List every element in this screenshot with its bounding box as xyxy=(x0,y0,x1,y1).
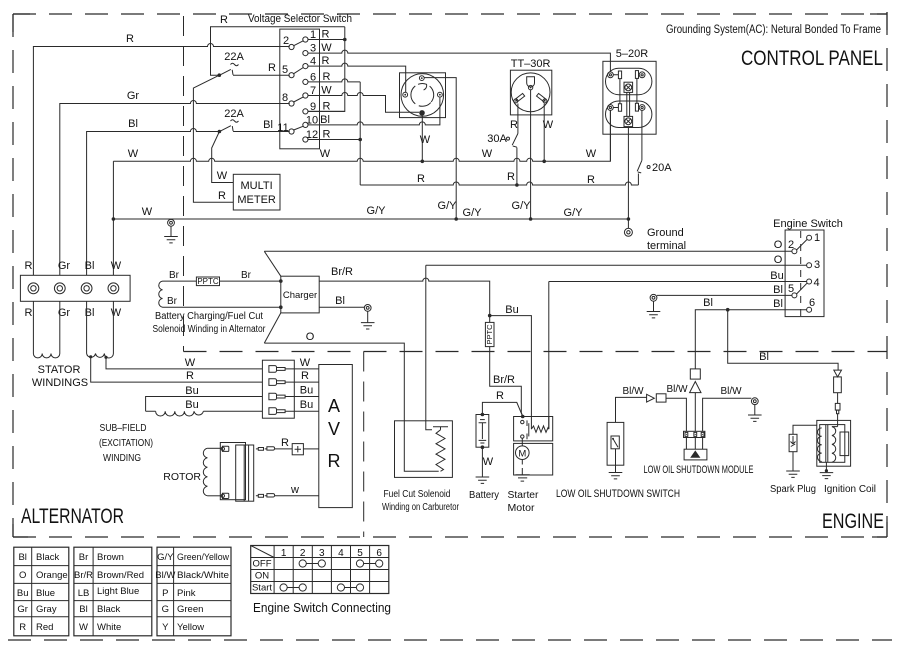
svg-text:Light Blue: Light Blue xyxy=(97,586,139,597)
wire Bl pin6 (corner x695.3 down to module, dot at 727.7) xyxy=(695,310,806,369)
svg-text:Bl: Bl xyxy=(128,118,138,130)
svg-text:Br: Br xyxy=(241,270,252,281)
svg-text:3: 3 xyxy=(814,259,820,271)
svg-text:Gr: Gr xyxy=(17,604,28,615)
relay contact bars xyxy=(526,420,528,439)
5-20R bottom neutral screw circle xyxy=(608,105,614,111)
STATOR xyxy=(20,260,262,464)
svg-text:Bl/W: Bl/W xyxy=(720,386,742,397)
svg-text:G/Y: G/Y xyxy=(564,207,584,219)
relay coil right end up to Bu pin4 line xyxy=(548,417,550,430)
svg-text:R: R xyxy=(126,33,134,45)
border top dashed xyxy=(13,13,887,15)
connector box xyxy=(656,394,666,402)
5-20R top outlet stadium xyxy=(606,68,652,95)
svg-text:R: R xyxy=(301,370,309,382)
brush assembly outer box xyxy=(220,443,245,500)
svg-text:W: W xyxy=(321,42,332,54)
ignition feed resistor box xyxy=(834,377,842,393)
svg-text:METER: METER xyxy=(237,194,276,206)
fuse 22A upper thermal squiggle xyxy=(231,63,239,65)
junction dot W/L14-30R neutral xyxy=(421,160,425,164)
frame ground terminal circle xyxy=(168,219,175,226)
svg-text:Gr: Gr xyxy=(127,90,140,102)
IGNITION xyxy=(770,370,876,495)
pin 1 xyxy=(303,37,308,42)
spark plug cap connector xyxy=(835,403,840,410)
svg-text:Y: Y xyxy=(162,622,169,633)
5-20R bottom outlet stadium xyxy=(606,101,652,128)
svg-text:Br: Br xyxy=(79,552,89,563)
svg-text:G/Y: G/Y xyxy=(463,207,483,219)
junction dot PPTC/Bu xyxy=(488,314,492,318)
svg-text:WINDINGS: WINDINGS xyxy=(32,377,88,389)
pin 12 xyxy=(303,137,308,142)
wire pin9 R to bus1 corner xyxy=(308,110,345,112)
svg-text:W: W xyxy=(128,148,139,160)
engine switch pin 4 xyxy=(807,279,812,284)
svg-text:O: O xyxy=(774,254,783,266)
svg-text:W: W xyxy=(586,148,597,160)
svg-text:O: O xyxy=(19,570,26,581)
svg-text:Gr: Gr xyxy=(58,260,71,272)
STARTER xyxy=(382,390,553,514)
module diode triangle (hollow up) xyxy=(690,382,701,393)
svg-text:M: M xyxy=(518,448,526,459)
svg-text:Red: Red xyxy=(36,622,53,633)
charger Bl ground terminal circle xyxy=(364,305,371,312)
low oil switch inner box xyxy=(611,436,619,449)
svg-text:Bl: Bl xyxy=(773,298,783,310)
svg-text:P: P xyxy=(162,588,168,599)
svg-text:W: W xyxy=(482,148,493,160)
svg-text:ALTERNATOR: ALTERNATOR xyxy=(21,505,124,528)
breaker 30A blade xyxy=(512,134,518,148)
L14-30R Y pin (right) xyxy=(438,92,443,97)
AVRROTOR xyxy=(163,357,352,508)
svg-text:R: R xyxy=(507,171,515,183)
engine switch pin 1 xyxy=(807,235,812,240)
svg-text:Spark Plug: Spark Plug xyxy=(770,484,816,495)
svg-text:6: 6 xyxy=(376,548,382,559)
svg-text:LOW OIL SHUTDOWN SWITCH: LOW OIL SHUTDOWN SWITCH xyxy=(556,488,680,500)
5-20R mounting strap verticals xyxy=(627,92,630,116)
Bl/W ground terminal circle xyxy=(751,398,758,405)
ignition coil secondary winding (right arcs) xyxy=(832,427,836,463)
module body box xyxy=(684,449,707,460)
svg-text:R: R xyxy=(19,622,26,633)
wire PPTC vertical down to Br/R corner xyxy=(490,316,523,417)
breaker 20A circle xyxy=(647,166,650,169)
starter ground symbol xyxy=(516,475,530,481)
tap dot for W sense line xyxy=(104,356,107,359)
relay contact bridge xyxy=(528,423,530,436)
svg-text:Bl: Bl xyxy=(759,351,769,363)
svg-text:W: W xyxy=(111,307,122,319)
junction dot W/TT-30R neutral xyxy=(542,160,546,164)
ignition coil HT block xyxy=(840,432,849,456)
receptacle TT-30R box xyxy=(510,70,551,115)
wire O to fuel cut solenoid bottom xyxy=(264,343,438,471)
svg-text:Solenoid Winding in Alternator: Solenoid Winding in Alternator xyxy=(153,324,267,335)
plug pair top row xyxy=(256,448,264,451)
engine switch connecting table box xyxy=(251,546,389,594)
svg-text:5: 5 xyxy=(788,283,794,295)
wires connector to AVR xyxy=(285,369,319,411)
stator winding R-Gr (coil arcs) xyxy=(33,301,59,358)
wire Bl branch down to ignition feed xyxy=(728,310,838,370)
wire pin3 W to 5-20R neutral riser (hump at bus1) xyxy=(308,50,610,72)
starter relay box xyxy=(514,417,553,441)
border left dashed xyxy=(12,14,14,537)
battery charging winding coil (vertical arcs) xyxy=(159,281,163,307)
wire fuse2 to multimeter W (diagonal, vertical x211.7) xyxy=(212,132,234,183)
wire switch bottom to ground xyxy=(615,449,617,473)
svg-text:R: R xyxy=(323,101,331,113)
Start row links 4-5 xyxy=(337,584,344,591)
svg-text:Bl: Bl xyxy=(18,552,26,563)
svg-text:WINDING: WINDING xyxy=(103,453,141,464)
svg-text:R: R xyxy=(323,129,331,141)
wire PPTC to charger xyxy=(220,280,281,282)
svg-text:Bl: Bl xyxy=(263,119,273,131)
battery bottom dot xyxy=(481,445,485,449)
ignition coil primary winding (left arcs) xyxy=(818,428,822,462)
svg-text:Fuel Cut Solenoid: Fuel Cut Solenoid xyxy=(384,489,451,500)
wire pin4 R to L14-30R left pin (hump at bus1) xyxy=(308,63,406,92)
svg-text:Black: Black xyxy=(97,604,120,615)
wire cap to coil xyxy=(837,414,839,427)
svg-text:Battery Charging/Fuel Cut: Battery Charging/Fuel Cut xyxy=(155,311,263,322)
wire connector to module left pin xyxy=(666,398,686,431)
5-20R bottom hot screw xyxy=(638,107,641,109)
charger box xyxy=(281,276,319,313)
svg-text:LOW OIL SHUTDOWN MODULE: LOW OIL SHUTDOWN MODULE xyxy=(644,464,754,476)
AVR connector block box xyxy=(262,360,294,418)
svg-text:R: R xyxy=(218,190,226,202)
L14-30R X pin (left) xyxy=(403,92,408,97)
engine switch box xyxy=(785,230,824,317)
svg-text:R: R xyxy=(220,14,228,26)
low oil switch ground symbol xyxy=(609,473,623,479)
svg-text:Br/R: Br/R xyxy=(493,374,515,386)
svg-text:Br: Br xyxy=(169,270,180,281)
ignition coil core verticals xyxy=(826,425,828,463)
svg-text:R: R xyxy=(25,307,33,319)
svg-text:Motor: Motor xyxy=(508,503,536,514)
relay coil zigzag xyxy=(531,426,548,432)
fuse 22A upper: junction dot xyxy=(218,73,222,77)
svg-text:R: R xyxy=(510,119,518,131)
svg-text:1: 1 xyxy=(281,548,287,559)
wire R top feed (bus1 to fuse1 via vertical x210.5) xyxy=(211,27,345,75)
svg-text:W: W xyxy=(185,357,196,369)
TT-30R left pin circle xyxy=(514,99,518,103)
stator terminal block box xyxy=(20,275,130,301)
svg-text:5: 5 xyxy=(282,64,288,76)
wire G/Y neutral-bond bus y219 xyxy=(113,218,628,220)
wire 5-20R bottom neutral down to W bus xyxy=(609,110,611,161)
svg-text:1: 1 xyxy=(814,232,820,244)
motor circle xyxy=(516,446,530,460)
wire W sense to connector xyxy=(106,357,262,369)
header diagonal xyxy=(251,546,274,558)
TT-30R right pin circle xyxy=(543,99,547,103)
wire Bl from charger to ground terminal xyxy=(319,306,364,308)
pin 6 xyxy=(303,79,308,84)
blade 11-10 xyxy=(294,126,304,130)
svg-text:LB: LB xyxy=(78,588,90,599)
wire secondary top to feed xyxy=(832,426,838,428)
stator winding Bl-W (coil arcs) xyxy=(87,301,114,358)
svg-text:Br/R: Br/R xyxy=(74,570,93,581)
terminal Gr xyxy=(54,283,65,294)
rotor wire bottom to brushes xyxy=(207,495,222,497)
wire pin6 R to bus2 (hump at bus1) xyxy=(308,79,360,82)
Bl/W ground symbol xyxy=(748,405,762,422)
svg-text:2: 2 xyxy=(788,239,794,251)
battery plates xyxy=(480,419,485,421)
svg-text:Brown: Brown xyxy=(97,552,124,563)
svg-text:8: 8 xyxy=(282,92,288,104)
svg-text:G/Y: G/Y xyxy=(512,200,532,212)
svg-text:Bl/W: Bl/W xyxy=(155,570,175,581)
svg-text:W: W xyxy=(111,260,122,272)
pin 11 xyxy=(289,129,294,134)
svg-text:W: W xyxy=(321,85,332,97)
wire TT-30R R slot down to 30A breaker xyxy=(517,104,519,134)
relay pin top xyxy=(521,420,524,423)
svg-text:V: V xyxy=(328,419,340,439)
svg-text:W: W xyxy=(79,622,88,633)
relay input junction dot xyxy=(521,415,525,419)
svg-text:22A: 22A xyxy=(224,108,244,120)
divider alternator/engine vertical dashed xyxy=(363,352,365,538)
legend table group 2 box xyxy=(74,547,152,636)
svg-text:11: 11 xyxy=(277,122,288,134)
wire Bl (stator Bl to fuse2 dot, hump at x193.4) xyxy=(87,129,220,276)
svg-text:R: R xyxy=(322,55,330,67)
svg-text:R: R xyxy=(186,370,194,382)
wire Bl pin5 to ground terminal xyxy=(657,294,792,296)
TT-30R ground pin circle xyxy=(528,85,532,89)
svg-text:Battery: Battery xyxy=(469,490,499,501)
svg-text:Voltage Selector Switch: Voltage Selector Switch xyxy=(248,13,352,25)
svg-text:Bl: Bl xyxy=(79,604,87,615)
fuse 22A lower: junction dot on Bl wire xyxy=(218,130,222,134)
wire pin1 stub to bus1 with dot xyxy=(308,39,345,41)
connector plug Bu row xyxy=(269,393,285,400)
engine switch pin 5 xyxy=(792,293,797,298)
fuse 22A upper blade and contact xyxy=(220,69,289,75)
5-20R center screw top xyxy=(624,82,633,92)
wire W stator bus (x113.4 up, along y161.3 to 5-20R neutral riser; humps at 193.4,211.7,360.2; dots at 422.3,544.2) xyxy=(113,111,610,276)
OFF row links 5-6 xyxy=(356,560,363,567)
wire pin7 W to L14-30R bottom pin (humps at bus1,bus2) xyxy=(308,93,419,113)
fuel cut solenoid winding zigzag xyxy=(433,427,448,472)
spark plug electrode symbol xyxy=(791,436,796,447)
tap dot for R sense line xyxy=(89,355,92,358)
svg-text:Bu: Bu xyxy=(505,304,518,316)
svg-text:G/Y: G/Y xyxy=(157,552,174,563)
svg-text:Bu: Bu xyxy=(300,399,313,411)
wire O to engine switch pin2 xyxy=(264,250,792,252)
BUSES xyxy=(112,171,639,243)
wire R sense to connector xyxy=(91,357,263,382)
battery ground symbol xyxy=(476,477,490,483)
svg-text:Orange: Orange xyxy=(36,570,68,581)
pin 4 xyxy=(303,64,308,69)
connector plug R row xyxy=(269,379,285,386)
svg-text:R: R xyxy=(322,29,330,41)
multimeter box xyxy=(233,174,280,210)
wire L14-30R ground pin to G/Y bus (humps over W bus and R bus) xyxy=(424,78,456,219)
svg-text:G/Y: G/Y xyxy=(438,200,458,212)
engine switch internal dashed line xyxy=(800,231,802,316)
svg-text:PPTC: PPTC xyxy=(485,324,494,345)
legend table group 1 box xyxy=(14,547,69,636)
rotor wire top to brushes xyxy=(207,447,222,449)
svg-text:Yellow: Yellow xyxy=(177,622,204,633)
AVR box xyxy=(319,365,353,508)
svg-text:MULTI: MULTI xyxy=(241,180,273,192)
border page-bottom dashed xyxy=(8,639,892,641)
svg-text:Br/R: Br/R xyxy=(331,266,353,278)
wire Bu to pin4 xyxy=(549,282,807,430)
svg-text:Grounding System(AC): Netural: Grounding System(AC): Netural Bonded To … xyxy=(666,24,881,36)
svg-text:Bl: Bl xyxy=(85,260,95,272)
fuse 22A lower thermal squiggle xyxy=(231,120,239,122)
svg-text:R: R xyxy=(268,62,276,74)
pin 9 xyxy=(303,109,308,114)
svg-text:W: W xyxy=(217,170,228,182)
pin 3 xyxy=(303,51,308,56)
junction dot stator W bond xyxy=(112,217,116,221)
RECEPTACLES xyxy=(400,48,687,252)
wire Br/R from charger (hump at 425.8) to PPTC vertical xyxy=(319,278,490,316)
ground terminal circle xyxy=(624,228,632,236)
svg-text:Bl: Bl xyxy=(85,307,95,319)
slip ring verticals xyxy=(244,445,248,501)
svg-text:Engine Switch Connecting: Engine Switch Connecting xyxy=(253,601,391,615)
ignition coil inner box xyxy=(820,425,845,463)
5-20R bottom hot slot xyxy=(635,103,638,111)
wire rotor W to AVR xyxy=(275,495,319,497)
wire module right pin to ground terminal xyxy=(703,398,752,431)
fork diagonal bottom (charger to O line solenoid) xyxy=(264,313,281,343)
wire 30A to R bus with dot xyxy=(516,148,518,186)
svg-text:Br: Br xyxy=(167,296,178,307)
5-20R top hot slot xyxy=(635,71,638,79)
battery R wire from top to relay xyxy=(482,402,522,416)
blade 8-7 xyxy=(294,97,304,102)
pin5 ground symbol xyxy=(647,301,661,318)
svg-text:R: R xyxy=(587,174,595,186)
connector plug W row xyxy=(269,366,285,373)
wire 5-20R hot down to 20A breaker xyxy=(641,110,643,160)
svg-text:R: R xyxy=(417,173,425,185)
ENGINESW xyxy=(426,218,843,430)
svg-text:ON: ON xyxy=(255,571,269,582)
brush assembly inner box xyxy=(236,445,254,501)
svg-text:Bl: Bl xyxy=(320,114,330,126)
svg-text:R: R xyxy=(496,390,504,402)
5-20R bottom T-slot xyxy=(613,104,621,112)
module connector strip xyxy=(684,431,705,437)
svg-text:SUB–FIELD: SUB–FIELD xyxy=(100,423,147,434)
wire to plus box xyxy=(275,448,292,450)
breaker 20A blade xyxy=(637,160,642,173)
junction dot ground L14 on G/Y xyxy=(454,217,458,221)
wire Bu upper to connector (from sub-field left) xyxy=(146,397,263,412)
wire L14-30R W pin down to W bus (hump over Bl wire) xyxy=(421,116,423,162)
wire Gr (stator Gr to selector pin8, hump at x193.4) xyxy=(60,101,290,276)
relay pin bottom xyxy=(521,435,524,438)
svg-text:Bl/W: Bl/W xyxy=(622,386,644,397)
ignition coil ground xyxy=(825,462,827,470)
svg-text:Green/Yellow: Green/Yellow xyxy=(177,552,229,563)
LOWOIL xyxy=(556,369,762,500)
charger Bl ground symbol xyxy=(361,311,375,329)
rotor coil (vertical arcs) xyxy=(203,448,207,496)
border right dashed xyxy=(886,12,888,537)
strip to module body links xyxy=(686,438,702,450)
brush contact top xyxy=(222,446,228,451)
svg-text:Charger: Charger xyxy=(283,290,317,301)
PPTC horizontal box xyxy=(196,277,219,286)
breaker 30A circle xyxy=(507,137,510,140)
sub-field excitation winding coil xyxy=(146,411,204,416)
blade 2-1 xyxy=(797,240,808,251)
receptacle 5-20R outer box xyxy=(603,61,656,134)
wire O to pin3 (from solenoid corner) xyxy=(426,265,807,430)
connector plug Bu2 row xyxy=(269,408,285,415)
svg-text:Bl: Bl xyxy=(335,295,345,307)
wire TT-30R W slot down to W bus xyxy=(543,103,545,161)
fuse 22A lower blade and contact xyxy=(220,126,289,132)
svg-text:Gray: Gray xyxy=(36,604,57,615)
pin 5 xyxy=(289,73,294,78)
wire spark plug to coil xyxy=(793,425,817,434)
svg-text:terminal: terminal xyxy=(647,240,686,252)
bus1 vertical (pin1 to pin9) xyxy=(308,27,345,112)
starter motor box xyxy=(514,443,553,475)
battery top dot xyxy=(481,413,485,417)
wire Bu lower to connector xyxy=(203,410,262,412)
wire plus box to AVR xyxy=(303,448,318,450)
5-20R neutral link vertical xyxy=(619,79,621,104)
svg-text:2: 2 xyxy=(283,35,289,47)
ignition feed diode triangle (hollow down) xyxy=(834,370,842,377)
boundary control-panel/engine horizontal dashed xyxy=(184,351,888,353)
svg-text:STATOR: STATOR xyxy=(38,364,81,376)
voltage selector switch box xyxy=(280,29,320,149)
junction dot charger input top xyxy=(279,279,283,283)
brush contact bottom xyxy=(222,493,228,498)
svg-text:Bu: Bu xyxy=(300,385,313,397)
engine switch pin 2 xyxy=(792,249,797,254)
CHARGER xyxy=(153,239,792,471)
svg-text:W: W xyxy=(420,134,431,146)
svg-text:30A: 30A xyxy=(487,133,507,145)
svg-text:O: O xyxy=(306,331,315,343)
svg-text:20A: 20A xyxy=(652,162,672,174)
receptacle L14-30R top hook slot xyxy=(418,84,427,90)
divider alternator/control-panel vertical dashed xyxy=(183,16,185,352)
wire relay pin to motor xyxy=(521,438,523,446)
svg-text:ENGINE: ENGINE xyxy=(822,510,884,533)
pin 8 xyxy=(289,101,294,106)
